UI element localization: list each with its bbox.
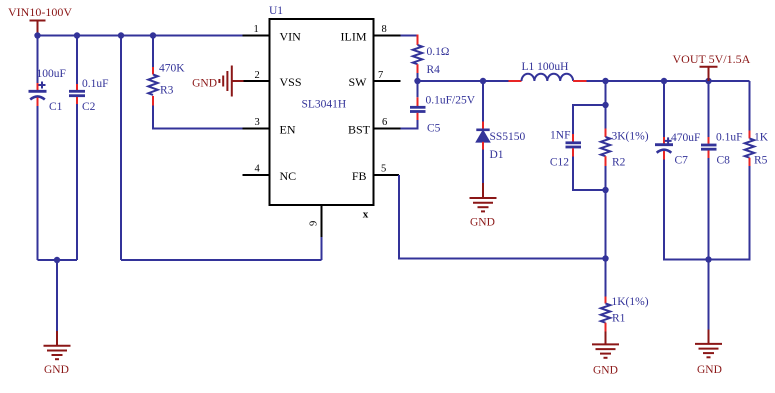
wire bottom-left join C1/C2 — [38, 259, 78, 261]
junction dot SW node — [414, 78, 420, 84]
svg-text:VSS: VSS — [280, 75, 302, 89]
wire pin9 branch bottom horizontal — [121, 259, 322, 261]
resistor R2 — [601, 129, 610, 167]
svg-text:C7: C7 — [675, 155, 689, 167]
svg-text:1K: 1K — [754, 132, 769, 144]
wire FB pin 5 run — [399, 175, 606, 259]
junction dot VOUT/C8 branch — [705, 78, 711, 84]
resistor R1 — [601, 297, 610, 332]
svg-text:GND: GND — [697, 364, 722, 376]
svg-text:R5: R5 — [754, 155, 768, 167]
junction dot C2 — [74, 32, 80, 38]
svg-text:VOUT 5V/1.5A: VOUT 5V/1.5A — [673, 52, 751, 66]
junction dot C1/C2 to ground — [54, 257, 60, 263]
wire R5 to ground rail — [709, 166, 750, 260]
junction dot C12/R2 bottom — [602, 187, 608, 193]
svg-text:VIN10-100V: VIN10-100V — [8, 5, 72, 19]
svg-text:6: 6 — [382, 117, 387, 128]
svg-text:C2: C2 — [82, 101, 96, 113]
wire to left ground — [56, 260, 58, 346]
wire R2 bottom — [605, 166, 607, 190]
capacitor C1 (polarized) — [29, 82, 47, 107]
svg-text:1NF: 1NF — [550, 130, 570, 142]
junction dot VIN/C1 — [34, 32, 40, 38]
svg-text:BST: BST — [348, 123, 371, 137]
wire pin9 branch up to chip — [321, 205, 323, 260]
ground symbol left — [44, 346, 71, 359]
wire C7 branch top — [663, 81, 665, 137]
power bar symbol VIN — [30, 21, 46, 36]
svg-text:GND: GND — [593, 365, 618, 377]
svg-text:470K: 470K — [159, 63, 185, 75]
wire VIN top rail — [38, 35, 244, 37]
wire L1 to VOUT rail — [587, 80, 750, 82]
wire FB node to R1 — [605, 259, 607, 297]
wire C8 to ground rail — [708, 158, 710, 260]
svg-text:4: 4 — [255, 164, 261, 175]
svg-text:EN: EN — [280, 123, 296, 137]
inductor L1 — [509, 74, 587, 81]
svg-text:FB: FB — [352, 169, 367, 183]
wire pin 8 to R4 — [401, 35, 418, 37]
ground symbol D1 — [470, 198, 497, 211]
junction dot pin9 branch — [118, 32, 124, 38]
wire C12 top branch — [573, 105, 606, 134]
ground symbol R1 — [592, 344, 619, 357]
svg-text:ILIM: ILIM — [341, 30, 367, 44]
svg-text:0.1uF: 0.1uF — [82, 78, 109, 90]
pin 2 stub VSS — [244, 80, 270, 82]
svg-text:100uF: 100uF — [37, 68, 66, 80]
diode D1 SS5150 — [476, 122, 489, 150]
wire C2 upper — [76, 36, 78, 85]
wire D1 anode to ground — [482, 150, 484, 198]
capacitor C8 — [701, 137, 717, 158]
pin 4 stub NC — [243, 174, 270, 176]
pin 8 stub ILIM — [374, 35, 401, 37]
wire C7 to ground rail — [664, 160, 709, 260]
junction dot after L1 — [602, 78, 608, 84]
wire C8 branch top — [708, 81, 710, 137]
svg-text:SW: SW — [349, 75, 368, 89]
svg-text:470uF: 470uF — [671, 132, 700, 144]
svg-text:R1: R1 — [612, 313, 626, 325]
svg-text:L1 100uH: L1 100uH — [522, 61, 569, 73]
svg-text:x: x — [363, 209, 369, 221]
svg-text:R4: R4 — [427, 64, 441, 76]
svg-text:R2: R2 — [612, 157, 626, 169]
svg-text:5: 5 — [381, 164, 386, 175]
resistor R3 — [148, 67, 157, 106]
wire feedback divider top — [605, 81, 607, 105]
pin 7 stub SW — [374, 80, 401, 82]
svg-text:0.1Ω: 0.1Ω — [427, 46, 450, 58]
wire R1 to ground — [605, 332, 607, 345]
svg-text:GND: GND — [192, 78, 217, 90]
svg-text:3: 3 — [255, 117, 260, 128]
svg-text:0.1uF/25V: 0.1uF/25V — [426, 95, 476, 107]
resistor R5 — [745, 131, 754, 167]
junction dot D1 — [480, 78, 486, 84]
svg-text:2: 2 — [255, 70, 260, 81]
wire C12 bottom branch — [573, 157, 606, 191]
svg-text:GND: GND — [470, 217, 495, 229]
svg-text:NC: NC — [280, 169, 297, 183]
capacitor C7 (polarized) — [655, 137, 673, 160]
op-amp U1 chip body SL3041H — [270, 19, 374, 205]
wire R3 upper — [152, 36, 154, 68]
wire R3 to pin 3 — [153, 106, 243, 129]
svg-text:R3: R3 — [160, 85, 174, 97]
svg-text:C8: C8 — [717, 155, 731, 167]
capacitor C12 — [566, 134, 582, 157]
wire R2 top — [605, 105, 607, 129]
svg-text:7: 7 — [378, 70, 383, 81]
pin 3 stub EN — [243, 128, 270, 130]
pin 6 stub BST — [374, 128, 401, 130]
wire SW to D1 cathode — [482, 81, 484, 122]
wire C2 lower — [76, 104, 78, 260]
ground symbol at pin 2 (rotated earth) — [219, 66, 243, 97]
wire C1 upper — [37, 36, 39, 84]
svg-text:GND: GND — [44, 364, 69, 376]
capacitor C5 — [410, 83, 426, 120]
junction dot C12/R2 top — [602, 102, 608, 108]
wire R5 branch top — [749, 81, 751, 131]
junction dot FB node — [602, 255, 608, 261]
svg-text:SS5150: SS5150 — [490, 131, 526, 143]
svg-text:8: 8 — [382, 24, 387, 35]
svg-text:SL3041H: SL3041H — [302, 99, 347, 111]
power bar symbol VOUT — [700, 67, 718, 81]
svg-text:C1: C1 — [49, 101, 63, 113]
wire C5 to pin 6 — [401, 120, 418, 129]
svg-text:C5: C5 — [427, 123, 441, 135]
wire pin9 branch vertical — [120, 36, 122, 261]
pin 1 stub VIN — [243, 35, 270, 37]
junction dot C7 branch — [661, 78, 667, 84]
svg-text:C12: C12 — [550, 157, 569, 169]
svg-text:9: 9 — [309, 221, 320, 226]
svg-text:1: 1 — [254, 24, 259, 35]
wire divider mid to FB line — [605, 190, 607, 259]
svg-text:VIN: VIN — [280, 30, 302, 44]
wire C1 lower — [37, 106, 39, 260]
wire R4 to SW node — [417, 73, 419, 81]
svg-text:1K(1%): 1K(1%) — [612, 296, 649, 308]
junction dot ground rail — [705, 256, 711, 262]
capacitor C2 — [69, 84, 85, 104]
svg-text:U1: U1 — [269, 5, 283, 17]
wire ground rail to ground symbol — [708, 260, 710, 344]
svg-text:3K(1%): 3K(1%) — [612, 131, 649, 143]
wire SW rail to D1/L1 — [418, 80, 509, 82]
svg-text:D1: D1 — [490, 149, 504, 161]
svg-text:0.1uF: 0.1uF — [716, 132, 743, 144]
resistor R4 — [413, 35, 422, 74]
pin 5 stub FB — [374, 174, 400, 176]
ground symbol output — [695, 344, 722, 357]
junction dot R3 — [150, 32, 156, 38]
